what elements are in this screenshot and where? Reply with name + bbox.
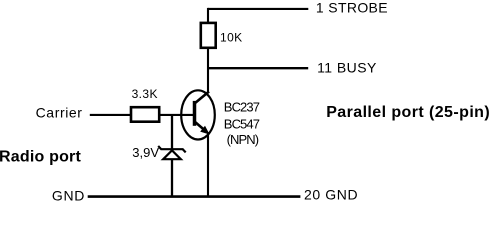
- svg-text:10K: 10K: [220, 31, 243, 45]
- svg-text:20 GND: 20 GND: [304, 187, 358, 203]
- svg-text:BC237: BC237: [224, 100, 260, 115]
- transistor Q1 emitter stroke: [195, 122, 206, 131]
- wire: zener anode down to ground: [171, 159, 173, 197]
- resistor 3.3K: [131, 107, 159, 122]
- wire ground: GND to pin 20: [88, 195, 301, 198]
- wire: zener tap down from base wire: [171, 115, 173, 149]
- wire busy: horizontal to pin 11: [208, 67, 308, 69]
- svg-text:GND: GND: [52, 187, 85, 203]
- transistor Q1 emitter arrowhead: [201, 127, 208, 134]
- resistor 10K: [201, 23, 216, 48]
- wire base: resistor 3.3K to transistor base: [160, 114, 194, 116]
- svg-text:(NPN): (NPN): [227, 132, 259, 147]
- svg-text:3.3K: 3.3K: [132, 87, 158, 101]
- transistor Q1 body circle: [181, 90, 215, 139]
- wire strobe: top horizontal to pin 1: [208, 8, 308, 10]
- svg-text:BC547: BC547: [224, 116, 260, 131]
- wire: strobe corner down to resistor 10K top: [207, 8, 209, 23]
- svg-text:11 BUSY: 11 BUSY: [317, 60, 377, 76]
- wire: emitter down to ground: [207, 133, 209, 198]
- transistor Q1 collector stroke: [195, 92, 210, 104]
- wire: resistor 10K bottom down to collector: [207, 47, 209, 93]
- svg-text:1 STROBE: 1 STROBE: [316, 0, 388, 15]
- svg-text:Radio port: Radio port: [0, 148, 81, 165]
- zener diode D1 anode triangle: [163, 150, 181, 159]
- zener diode D1 cathode bar with tails: [158, 146, 186, 152]
- transistor Q1 base bar: [193, 101, 197, 126]
- svg-text:3,9V: 3,9V: [132, 145, 159, 160]
- wire carrier: from Carrier label to resistor 3.3K: [90, 114, 131, 116]
- svg-text:Carrier: Carrier: [36, 104, 83, 120]
- svg-text:Parallel port (25-pin): Parallel port (25-pin): [326, 104, 489, 121]
